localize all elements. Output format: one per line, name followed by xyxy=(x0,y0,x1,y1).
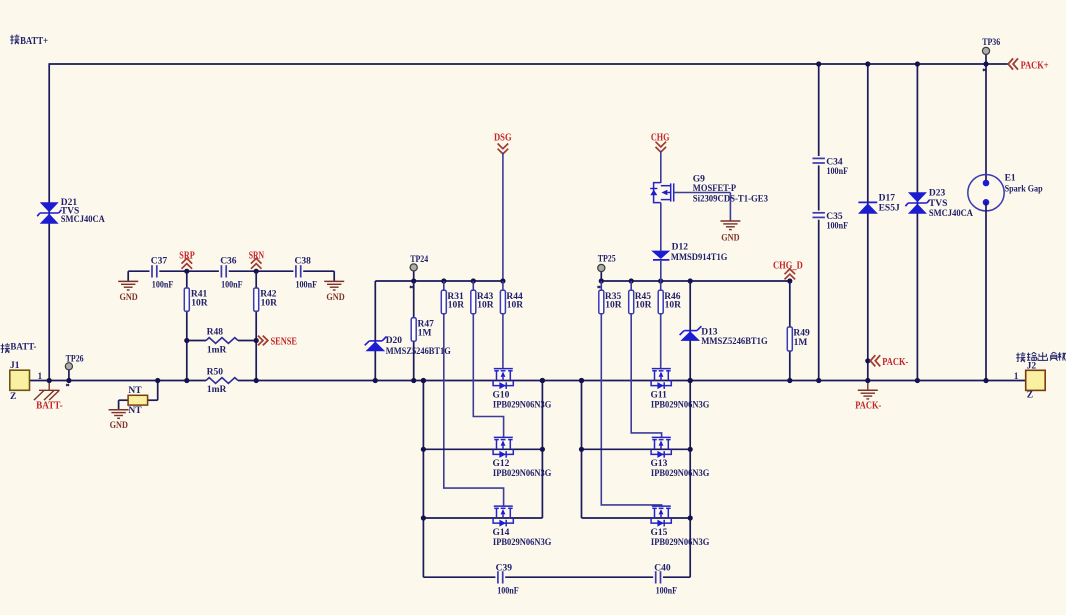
svg-text:10R: 10R xyxy=(477,301,494,311)
resistor R47 xyxy=(411,318,416,341)
junction G15 rail right xyxy=(688,515,693,520)
wire C39/C40 row xyxy=(423,576,495,578)
junction rail R49 xyxy=(787,378,792,383)
resistor R31 xyxy=(441,290,446,313)
ground GND (left of C37) xyxy=(127,271,129,281)
junction rail R41/R50 xyxy=(184,378,189,383)
transistor G11 xyxy=(651,369,671,389)
resistor R43 xyxy=(471,290,476,313)
junction rail XCB xyxy=(540,378,545,383)
svg-text:Spark Gap: Spark Gap xyxy=(1005,185,1043,195)
junction top rail E1/TP36 xyxy=(983,61,988,66)
net label 接BATT+ xyxy=(10,34,48,47)
svg-text:D17: D17 xyxy=(879,194,896,204)
svg-text:IPB029N06N3G: IPB029N06N3G xyxy=(493,538,552,548)
junction rail PACK- xyxy=(865,378,870,383)
wire R41 column xyxy=(186,271,188,380)
junction SRP xyxy=(184,269,189,274)
wire D12 to bus xyxy=(660,261,662,281)
wire C34 column top xyxy=(818,64,820,156)
resistor R35 xyxy=(599,290,604,313)
junction bus R45 xyxy=(629,278,634,283)
junction rail R42/R50 xyxy=(254,378,259,383)
svg-text:10R: 10R xyxy=(507,301,524,311)
chevron CHG xyxy=(656,142,667,147)
wire D13 column xyxy=(689,281,691,577)
svg-text:IPB029N06N3G: IPB029N06N3G xyxy=(651,538,710,548)
junction bus CHG_D xyxy=(787,278,792,283)
test point TP25 xyxy=(600,271,602,281)
connector J1 xyxy=(10,370,30,390)
wire G13 rail xyxy=(582,448,691,450)
wire mid column (left bank) xyxy=(541,381,543,519)
svg-text:10R: 10R xyxy=(665,301,682,311)
junction G14 rail left xyxy=(421,515,426,520)
svg-text:10R: 10R xyxy=(635,301,652,311)
svg-text:MMSZ5246BT1G: MMSZ5246BT1G xyxy=(701,337,768,347)
test point TP24 xyxy=(413,271,415,281)
svg-text:10R: 10R xyxy=(261,298,278,308)
svg-text:GND: GND xyxy=(326,293,344,303)
junction rail D13 xyxy=(688,378,693,383)
junction bus D13 xyxy=(688,278,693,283)
chevron SRN xyxy=(251,264,262,269)
junction rail TP26 xyxy=(66,378,71,383)
svg-text:DSG: DSG xyxy=(494,133,512,144)
svg-text:G11: G11 xyxy=(651,390,668,400)
wire R47 column xyxy=(413,281,415,381)
resistor R41 xyxy=(184,288,189,311)
junction rail XCA xyxy=(421,378,426,383)
svg-text:R50: R50 xyxy=(207,368,224,378)
svg-text:100nF: 100nF xyxy=(152,280,174,290)
spark gap E1 xyxy=(968,175,1004,211)
svg-text:G12: G12 xyxy=(493,459,510,469)
diode D17 xyxy=(858,201,877,203)
chevron DSG xyxy=(498,144,509,149)
svg-text:C37: C37 xyxy=(151,256,168,266)
junction rail C35 xyxy=(816,378,821,383)
wire DSG drop xyxy=(502,153,504,282)
junction rail XCC xyxy=(579,378,584,383)
junction rail XCB xyxy=(540,378,545,383)
ground GND (NT) xyxy=(109,409,129,411)
capacitor C37 xyxy=(151,265,153,277)
svg-text:100nF: 100nF xyxy=(497,587,519,597)
svg-text:Z: Z xyxy=(1027,390,1033,400)
capacitor C40 xyxy=(655,571,657,583)
junction bus R44 xyxy=(500,278,505,283)
svg-text:10R: 10R xyxy=(605,301,622,311)
chevron CHG_D xyxy=(785,274,796,279)
transistor G14 xyxy=(493,506,513,526)
svg-text:1mR: 1mR xyxy=(207,345,227,355)
svg-text:GND: GND xyxy=(119,293,137,303)
svg-text:Z: Z xyxy=(10,392,16,402)
wire C35 to rail xyxy=(818,220,820,381)
junction SRN xyxy=(254,269,259,274)
wire G15 rail xyxy=(582,517,691,519)
power port PACK- xyxy=(867,381,869,391)
ground GND (G9 gate) xyxy=(720,220,740,222)
svg-text:J2: J2 xyxy=(1027,362,1037,372)
capacitor C35 xyxy=(813,212,825,214)
junction G13 rail left xyxy=(579,447,584,452)
chevron PACK- xyxy=(870,355,875,366)
svg-text:R49: R49 xyxy=(793,328,810,338)
junction G12 rail right xyxy=(540,447,545,452)
junction PACK- tap xyxy=(865,358,870,363)
power port BATT- (chassis) xyxy=(34,381,60,401)
junction G12 rail left xyxy=(421,447,426,452)
wire R42 column xyxy=(255,271,257,380)
wire top BATT+ rail xyxy=(49,63,1008,65)
wire R31 column + feed to G14 gate xyxy=(444,281,504,507)
diode D23 TVS xyxy=(908,192,927,202)
wire R35 column + feed to G15 gate xyxy=(601,281,661,507)
wire R48 row xyxy=(187,340,206,342)
junction rail D20 xyxy=(373,378,378,383)
svg-text:TP24: TP24 xyxy=(410,255,428,265)
junction top rail D23 xyxy=(915,61,920,66)
wire right gate bus xyxy=(601,280,790,282)
wire left source column xyxy=(422,381,424,578)
svg-text:D12: D12 xyxy=(672,243,689,253)
svg-text:MMSZ5246BT1G: MMSZ5246BT1G xyxy=(386,347,452,357)
svg-text:D23: D23 xyxy=(929,189,946,199)
junction bus TP24 xyxy=(411,278,416,283)
svg-text:100nF: 100nF xyxy=(827,222,849,232)
svg-text:E1: E1 xyxy=(1005,174,1016,184)
connector J2 xyxy=(1026,370,1046,390)
svg-text:10R: 10R xyxy=(448,301,465,311)
svg-text:G10: G10 xyxy=(493,390,510,400)
svg-text:100nF: 100nF xyxy=(827,167,849,177)
wire R49 column xyxy=(789,281,791,381)
svg-text:BATT+: BATT+ xyxy=(20,36,48,47)
wire C34 to C35 xyxy=(818,165,820,210)
svg-text:R48: R48 xyxy=(207,327,224,337)
chevron SRP xyxy=(182,264,193,269)
svg-text:C40: C40 xyxy=(654,564,671,574)
svg-text:1: 1 xyxy=(1014,371,1019,381)
svg-text:100nF: 100nF xyxy=(221,280,243,290)
capacitor C38 xyxy=(295,265,297,277)
svg-text:SMCJ40CA: SMCJ40CA xyxy=(61,215,105,225)
junction rail XCC xyxy=(579,378,584,383)
svg-text:D13: D13 xyxy=(701,327,718,337)
wire G9 gate to GND xyxy=(674,192,731,194)
junction bus R31 xyxy=(441,278,446,283)
svg-text:100nF: 100nF xyxy=(296,280,318,290)
svg-text:TP25: TP25 xyxy=(598,255,616,265)
wire E1 column bottom xyxy=(985,202,987,380)
svg-text:IPB029N06N3G: IPB029N06N3G xyxy=(493,469,552,479)
svg-text:PACK-: PACK- xyxy=(855,400,881,411)
svg-text:GND: GND xyxy=(721,233,739,243)
svg-text:1M: 1M xyxy=(794,338,808,348)
svg-text:IPB029N06N3G: IPB029N06N3G xyxy=(493,400,552,410)
chevron PACK+ xyxy=(1008,58,1013,69)
svg-text:PACK-: PACK- xyxy=(882,357,908,368)
svg-text:BATT-: BATT- xyxy=(10,343,36,353)
svg-text:C39: C39 xyxy=(496,564,513,574)
wire bottom BATT- rail right segment xyxy=(238,380,1026,382)
wire NT left to GND xyxy=(119,399,129,401)
svg-text:NT: NT xyxy=(128,386,142,396)
transistor G9 MOSFET-P xyxy=(654,183,674,203)
svg-text:GND: GND xyxy=(110,421,128,431)
transistor G12 xyxy=(493,437,513,457)
svg-text:ES5J: ES5J xyxy=(879,203,900,213)
wire R44 column to G10 gate xyxy=(502,281,504,369)
wire C37 row xyxy=(128,270,149,272)
svg-text:D20: D20 xyxy=(386,336,403,346)
svg-text:1: 1 xyxy=(38,371,43,381)
junction bus TP25 xyxy=(599,278,604,283)
junction rail XCA xyxy=(421,378,426,383)
svg-text:G13: G13 xyxy=(651,459,668,469)
test point TP36 xyxy=(985,54,987,64)
wire NT right to rail xyxy=(157,381,159,401)
resistor R48 (zigzag) xyxy=(206,338,238,344)
transistor G15 xyxy=(651,506,671,526)
wire D23 column xyxy=(916,64,918,381)
wire G12 rail xyxy=(423,448,542,450)
svg-text:G15: G15 xyxy=(651,528,668,538)
wire R46 column to G11 gate xyxy=(660,281,662,369)
svg-text:SMCJ40CA: SMCJ40CA xyxy=(929,209,973,219)
wire right inner column xyxy=(581,381,583,519)
diode D13 zener xyxy=(680,331,700,341)
capacitor C36 xyxy=(220,265,222,277)
resistor R49 xyxy=(787,327,792,351)
svg-text:C38: C38 xyxy=(295,256,312,266)
ground GND (right of C38) xyxy=(333,271,335,281)
junction bus R43 xyxy=(471,278,476,283)
no-ERC marker TP25 xyxy=(597,286,600,288)
junction R48 left xyxy=(184,338,189,343)
svg-text:TP36: TP36 xyxy=(982,38,1000,48)
wire R43 column + feed to G12 gate xyxy=(473,281,503,438)
diode D12 xyxy=(651,251,670,259)
junction rail XCD xyxy=(688,378,693,383)
wire bottom BATT- rail left segment xyxy=(30,380,207,382)
resistor R42 xyxy=(254,288,259,311)
svg-text:TVS: TVS xyxy=(929,199,947,209)
junction rail R47 xyxy=(411,378,416,383)
wire left vertical BATT+ drop xyxy=(48,63,50,380)
diode D21 TVS xyxy=(40,202,59,212)
junction G13 rail right xyxy=(688,447,693,452)
svg-text:PACK+: PACK+ xyxy=(1021,61,1049,72)
wire D20 column xyxy=(374,281,376,381)
wire R45 column + feed to G13 gate xyxy=(631,281,661,438)
wire CHG to G9 xyxy=(660,151,662,183)
component NT (net tie) xyxy=(128,395,148,405)
wire G9 drain to D12 xyxy=(660,203,662,251)
svg-text:J1: J1 xyxy=(10,361,20,371)
test point TP26 xyxy=(68,370,70,381)
wire left gate bus xyxy=(375,280,503,282)
junction rail J1/D21 xyxy=(47,378,52,383)
resistor R44 xyxy=(500,290,505,313)
svg-text:100nF: 100nF xyxy=(656,587,678,597)
svg-text:SENSE: SENSE xyxy=(271,336,298,347)
svg-text:TP26: TP26 xyxy=(66,354,84,364)
no-ERC marker TP36 xyxy=(983,69,986,71)
label 接输出负极 (J2) xyxy=(1016,352,1066,362)
resistor R50 (zigzag) xyxy=(206,378,238,384)
svg-text:10R: 10R xyxy=(191,298,208,308)
svg-text:MMSD914T1G: MMSD914T1G xyxy=(671,253,728,263)
resistor R45 xyxy=(629,290,634,313)
transistor G10 xyxy=(493,369,513,389)
transistor G13 xyxy=(651,437,671,457)
resistor R46 xyxy=(658,290,663,313)
svg-text:1mR: 1mR xyxy=(207,385,227,395)
wire D17 column xyxy=(867,64,869,381)
junction R48 right xyxy=(254,338,259,343)
junction rail E1 xyxy=(983,378,988,383)
wire E1 column top xyxy=(985,64,987,183)
svg-text:BATT-: BATT- xyxy=(36,400,63,411)
diode D20 zener xyxy=(366,342,386,352)
svg-text:NT: NT xyxy=(128,406,142,416)
junction rail NT xyxy=(155,378,160,383)
junction rail D23 xyxy=(915,378,920,383)
svg-text:C36: C36 xyxy=(220,256,237,266)
svg-text:CHG: CHG xyxy=(651,133,670,144)
capacitor C39 xyxy=(497,571,499,583)
capacitor C34 xyxy=(813,157,825,159)
svg-text:IPB029N06N3G: IPB029N06N3G xyxy=(651,469,710,479)
svg-text:IPB029N06N3G: IPB029N06N3G xyxy=(651,400,710,410)
no-ERC marker TP24 xyxy=(410,286,413,288)
chevron SENSE xyxy=(258,336,263,346)
junction top rail C34 xyxy=(816,61,821,66)
svg-text:1M: 1M xyxy=(418,328,432,338)
no-ERC marker TP26 xyxy=(66,384,69,386)
svg-text:G14: G14 xyxy=(493,528,510,538)
net label 接BATT- xyxy=(1,343,37,353)
svg-text:C34: C34 xyxy=(826,158,843,168)
junction top rail D17 xyxy=(865,61,870,66)
junction bus R46 xyxy=(658,278,663,283)
wire G14 rail xyxy=(423,517,542,519)
